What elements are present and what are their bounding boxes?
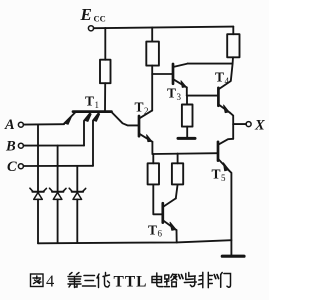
svg-text:2: 2: [144, 106, 149, 116]
svg-text:C: C: [7, 159, 17, 175]
transistor T2: [139, 111, 152, 154]
input terminal B: [18, 143, 84, 148]
svg-text:T: T: [215, 70, 224, 85]
transistor T3: [152, 64, 232, 96]
svg-text:T: T: [212, 167, 221, 182]
wire T3 emitter to T4 base: [187, 95, 219, 97]
svg-text:X: X: [254, 118, 265, 134]
svg-text:T: T: [167, 86, 176, 101]
wire ground rail: [38, 240, 231, 243]
glyph 电: [152, 273, 163, 287]
svg-text:CC: CC: [94, 13, 106, 23]
ground G2: [222, 255, 244, 258]
svg-text:4: 4: [46, 271, 54, 290]
glyph 门: [221, 273, 231, 288]
resistor R2: [146, 27, 159, 110]
close quote: [214, 275, 218, 279]
svg-text:A: A: [4, 117, 15, 133]
caption 图4 第三代TTL电路"与非"门: [31, 272, 231, 287]
transistor T4: [218, 64, 233, 139]
svg-text:E: E: [80, 5, 92, 24]
svg-text:B: B: [5, 139, 16, 155]
diode D2: [50, 146, 67, 243]
glyph 与: [184, 273, 196, 287]
diode D1: [30, 125, 47, 244]
open quote: [179, 275, 183, 279]
glyph 路: [165, 274, 177, 287]
transistor T1 multi-emitter: [64, 112, 139, 166]
output terminal X: [233, 122, 251, 127]
transistor T6: [163, 198, 177, 242]
wire top supply rail: [94, 27, 234, 29]
resistor R4: [227, 27, 239, 64]
svg-text:1: 1: [95, 100, 100, 110]
input terminal C: [18, 164, 93, 169]
transistor T5: [152, 139, 233, 256]
input terminal A: [18, 122, 64, 127]
svg-text:6: 6: [158, 229, 163, 239]
glyph 图: [31, 274, 44, 287]
resistor R6: [172, 154, 183, 199]
glyph 三: [83, 276, 96, 287]
power terminal E_CC: [88, 26, 93, 31]
resistor R3: [182, 96, 193, 138]
diode D3: [69, 166, 86, 243]
svg-text:3: 3: [177, 92, 182, 102]
glyph 代: [97, 273, 110, 288]
svg-text:5: 5: [221, 173, 226, 183]
resistor R1: [100, 28, 111, 111]
svg-text:TTL: TTL: [114, 273, 148, 290]
svg-text:4: 4: [225, 76, 230, 86]
ground G1: [178, 137, 195, 140]
glyph 非: [198, 272, 212, 287]
svg-text:T: T: [85, 94, 94, 109]
svg-text:T: T: [148, 223, 157, 238]
glyph 第: [68, 273, 81, 288]
svg-text:T: T: [135, 100, 144, 115]
resistor R5: [148, 154, 163, 214]
